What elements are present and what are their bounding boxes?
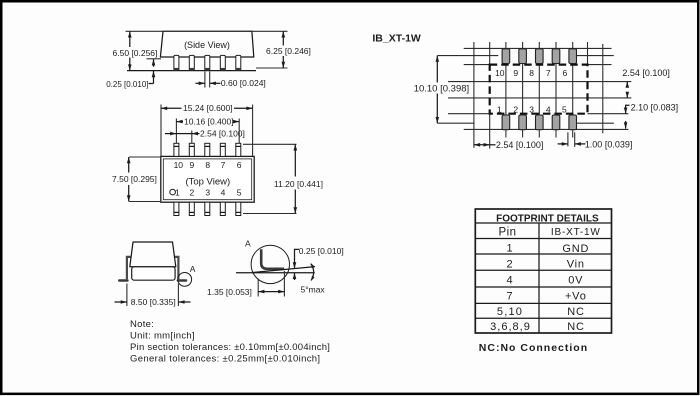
- svg-text:IB_XT-1W: IB_XT-1W: [372, 33, 421, 45]
- construction horizontals: [464, 47, 612, 49]
- svg-text:A: A: [190, 264, 196, 274]
- svg-text:6: 6: [563, 68, 568, 78]
- svg-text:7: 7: [546, 68, 551, 78]
- side pin 2: [189, 55, 194, 70]
- side view body: [160, 31, 253, 57]
- svg-text:2.10 [0.083]: 2.10 [0.083]: [631, 102, 679, 112]
- svg-text:0.60 [0.024]: 0.60 [0.024]: [221, 78, 266, 88]
- svg-text:4: 4: [221, 188, 226, 198]
- dim 0.60 extension lines: [204, 72, 206, 88]
- dim 8.50 extension lines: [126, 284, 128, 307]
- svg-text:(Top View): (Top View): [185, 177, 230, 188]
- svg-text:11.20 [0.441]: 11.20 [0.441]: [274, 179, 323, 189]
- table row lines: [475, 222, 611, 224]
- svg-text:2.54 [0.100]: 2.54 [0.100]: [622, 68, 670, 78]
- dim 0.25d bracket: [295, 249, 300, 255]
- dim 0.60 arrows: [196, 82, 205, 84]
- top view body inner: [163, 159, 251, 200]
- svg-text:A: A: [245, 238, 251, 248]
- svg-text:10.16 [0.400]: 10.16 [0.400]: [184, 116, 234, 126]
- dim 0.25 arrows: [153, 59, 155, 67]
- svg-text:GND: GND: [562, 243, 589, 255]
- table outer: [475, 209, 611, 333]
- right lead: [175, 257, 179, 279]
- svg-text:NC: NC: [567, 321, 585, 333]
- dim 7.50 line: [128, 157, 130, 173]
- top pins: [174, 143, 241, 156]
- dim 10.10 line: [436, 56, 438, 83]
- detail 5 deg line: [252, 267, 315, 273]
- svg-text:IB-XT-1W: IB-XT-1W: [551, 227, 601, 238]
- svg-text:3: 3: [529, 104, 534, 114]
- svg-text:0.25 [0.010]: 0.25 [0.010]: [299, 246, 344, 256]
- dim 2.54b arrows: [474, 144, 490, 146]
- svg-text:5: 5: [562, 104, 567, 114]
- svg-text:7: 7: [506, 291, 512, 303]
- dim 0.25 body bottom extension: [147, 58, 162, 60]
- svg-text:2: 2: [513, 104, 518, 114]
- dim 2.54t arrows: [165, 133, 176, 135]
- dim 0.25d arrows: [294, 255, 296, 269]
- svg-text:9: 9: [513, 68, 518, 78]
- dim 2.10 bracket: [626, 105, 630, 109]
- svg-text:Pin: Pin: [498, 226, 516, 238]
- dim 15.24 line: [161, 107, 182, 109]
- svg-text:1: 1: [506, 243, 512, 255]
- seating plane line: [127, 70, 256, 72]
- right foot: [178, 279, 186, 281]
- svg-text:10: 10: [174, 160, 184, 170]
- dim 2.54r line: [626, 82, 628, 87]
- svg-text:NC: NC: [567, 306, 585, 318]
- dim 8.50 arrows: [115, 301, 127, 303]
- svg-text:5: 5: [237, 188, 242, 198]
- svg-text:2: 2: [190, 188, 195, 198]
- side pin 3: [205, 55, 210, 70]
- svg-text:Unit: mm[inch]: Unit: mm[inch]: [130, 331, 195, 342]
- svg-text:3,6,8,9: 3,6,8,9: [490, 321, 531, 333]
- pads top row: [502, 49, 510, 64]
- svg-text:0V: 0V: [568, 275, 583, 287]
- detail circle on right foot: [178, 273, 192, 287]
- svg-text:5°max: 5°max: [301, 285, 326, 295]
- dim 15.24 extension lines: [160, 105, 162, 157]
- svg-text:2.54 [0.100]: 2.54 [0.100]: [200, 128, 245, 138]
- side pin 1: [174, 55, 179, 70]
- front body lower: [132, 267, 175, 280]
- svg-text:+Vo: +Vo: [565, 291, 587, 303]
- svg-text:3: 3: [205, 188, 210, 198]
- dim 2.54t extension line: [191, 131, 193, 144]
- dim 10.16 extension lines: [175, 119, 177, 144]
- dim 6.25 line: [282, 31, 284, 45]
- svg-text:1: 1: [497, 104, 502, 114]
- svg-text:1.00 [0.039]: 1.00 [0.039]: [585, 139, 633, 149]
- svg-text:1.35 [0.053]: 1.35 [0.053]: [207, 287, 252, 297]
- dim 11.20 extension lines: [243, 143, 297, 145]
- svg-text:2.54 [0.100]: 2.54 [0.100]: [496, 140, 544, 150]
- svg-text:Note:: Note:: [130, 319, 154, 330]
- construction verticals: [473, 42, 475, 148]
- dim 0.25 leader: [149, 83, 154, 85]
- dim 1.35 line: [258, 291, 284, 293]
- svg-text:4: 4: [546, 104, 551, 114]
- front body upper: [130, 242, 176, 267]
- svg-text:7.50 [0.295]: 7.50 [0.295]: [112, 174, 157, 184]
- svg-text:8: 8: [205, 160, 210, 170]
- left lead: [127, 257, 131, 279]
- dim 1.00 arrows: [558, 143, 568, 145]
- svg-text:9: 9: [190, 160, 195, 170]
- side pin 4: [220, 55, 225, 70]
- detail seating line: [236, 272, 315, 274]
- svg-text:General tolerances: ±0.25mm[±0: General tolerances: ±0.25mm[±0.010inch]: [130, 353, 320, 364]
- svg-text:8: 8: [529, 68, 534, 78]
- courtyard dashed rect: [490, 65, 588, 114]
- svg-text:10.10 [0.398]: 10.10 [0.398]: [414, 83, 469, 94]
- pin1 index circle: [170, 189, 176, 195]
- dim 10.16 line: [176, 121, 183, 123]
- top view body outer: [161, 156, 254, 202]
- dim 1.35 extension lines: [257, 279, 259, 297]
- svg-text:Pin section tolerances: ±0.10: Pin section tolerances: ±0.10mm[±0.004in…: [130, 342, 330, 353]
- svg-text:(Side View): (Side View): [184, 40, 230, 50]
- dim 6.50 extension line: [126, 30, 165, 32]
- svg-text:8.50 [0.335]: 8.50 [0.335]: [131, 297, 176, 307]
- svg-text:2: 2: [506, 258, 512, 270]
- side pin 5: [236, 55, 241, 70]
- dim 6.50 line: [129, 31, 131, 47]
- svg-text:NC:No Connection: NC:No Connection: [479, 342, 588, 354]
- left foot: [119, 279, 127, 281]
- svg-text:FOOTPRINT DETAILS: FOOTPRINT DETAILS: [496, 213, 599, 224]
- detail lead profile: [261, 249, 284, 268]
- svg-text:6.25 [0.246]: 6.25 [0.246]: [266, 46, 311, 56]
- arc arrowhead bottom: [311, 276, 314, 281]
- svg-text:6.50 [0.256]: 6.50 [0.256]: [113, 48, 158, 58]
- dim 7.50 extension lines: [129, 156, 160, 158]
- dim 6.25 extension lines: [250, 30, 288, 32]
- 1.00 extension lines: [567, 132, 569, 146]
- svg-text:4: 4: [506, 275, 512, 287]
- svg-text:6: 6: [237, 160, 242, 170]
- detail A circle: [251, 245, 289, 283]
- dim 11.20 line: [294, 144, 296, 176]
- dim 2.10 arrows: [625, 109, 627, 114]
- svg-text:7: 7: [221, 160, 226, 170]
- pads bottom row: [502, 115, 510, 130]
- svg-text:1: 1: [175, 188, 180, 198]
- arc arrowhead top: [311, 263, 315, 268]
- table column divider: [538, 223, 540, 333]
- svg-text:0.25 [0.010]: 0.25 [0.010]: [106, 80, 148, 89]
- svg-text:Vin: Vin: [567, 258, 585, 270]
- svg-text:10: 10: [495, 68, 505, 78]
- svg-text:15.24 [0.600]: 15.24 [0.600]: [183, 103, 233, 113]
- bottom pins: [174, 202, 241, 215]
- svg-text:5,10: 5,10: [497, 306, 523, 318]
- angle arc: [311, 264, 314, 281]
